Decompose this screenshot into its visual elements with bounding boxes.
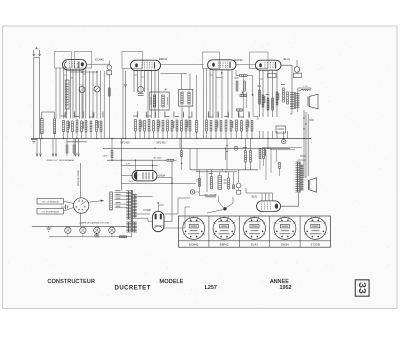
- svg-text:CPL. CYLINDRIQUE: CPL. CYLINDRIQUE: [42, 202, 60, 204]
- socket S4 EM34: [274, 217, 296, 239]
- output transformer T1 primary: [291, 93, 293, 109]
- scan speckle: [130, 69, 133, 72]
- svg-text:DUCRETET: DUCRETET: [115, 286, 151, 292]
- switch shaft wire: [80, 163, 82, 198]
- wire screen line: [122, 165, 159, 167]
- wires cluster2b to bus: [176, 131, 178, 138]
- capacitor C3: [90, 121, 92, 132]
- resistor R38: [189, 121, 191, 132]
- wire HT to rectifier: [135, 196, 153, 198]
- speaker HP1: [307, 97, 309, 107]
- capacitor C6: [162, 121, 164, 132]
- wires cluster4 to bus: [259, 131, 261, 139]
- volume potentiometer P1: [190, 190, 194, 194]
- resistor R1: [63, 121, 65, 132]
- oscillator coil box: [65, 80, 69, 109]
- resistor R19: [230, 121, 232, 132]
- cluster value labels row1: [64, 112, 66, 118]
- wire V1 to pilot: [87, 63, 110, 65]
- wire B3 drop: [122, 69, 124, 139]
- rotary switch SW1: [74, 198, 89, 213]
- wire boxes to switch: [64, 201, 74, 203]
- padder coil winding: [54, 119, 56, 134]
- wire pickup: [238, 170, 240, 183]
- resistor R29: [111, 151, 113, 158]
- AVC filter resistor: [108, 88, 110, 96]
- wire pilot down: [108, 75, 110, 139]
- wire vol drop: [198, 170, 200, 196]
- resistor R20: [236, 120, 238, 131]
- resistor R28: [287, 92, 289, 104]
- ground bottom: [32, 225, 33, 227]
- wire rectifier right links: [164, 198, 190, 214]
- coil shield box L4: [203, 52, 220, 69]
- junction dots 227: [226, 145, 227, 146]
- power transformer secondary: [134, 195, 136, 219]
- svg-text:C.A.V.: C.A.V.: [102, 155, 108, 158]
- wire trimmer stubs: [66, 139, 68, 146]
- trimmer symbol: [65, 205, 67, 210]
- wire EM34 riser: [121, 139, 123, 191]
- phone jack: [294, 67, 300, 73]
- power transformer filament winding: [134, 222, 136, 232]
- decoupling box: [276, 126, 286, 133]
- svg-text:ECH42: ECH42: [189, 243, 199, 247]
- dial lamp LP2: [80, 227, 86, 233]
- pickup circle P2: [236, 183, 241, 188]
- resistor R11: [167, 120, 169, 131]
- wires V6 top leads: [261, 193, 263, 201]
- svg-text:ECH42: ECH42: [95, 58, 104, 62]
- svg-text:VOL.: VOL.: [196, 177, 198, 182]
- capacitor C11: [241, 121, 243, 132]
- wires B1 B2 drops: [55, 68, 57, 119]
- resistor R6: [100, 121, 102, 132]
- trimmer capacitor CT1: [66, 145, 68, 153]
- wire V3 outputs: [235, 70, 237, 76]
- wire grid loop: [262, 147, 302, 149]
- resistor R24: [262, 95, 264, 107]
- output transformer T1 core: [294, 92, 296, 109]
- coupling capacitor C7: [240, 75, 248, 77]
- svg-text:MF1 455: MF1 455: [120, 143, 130, 145]
- wire transformer to lamps: [131, 232, 133, 237]
- wire antenna down-leads: [33, 58, 35, 139]
- socket S2 EBF42: [213, 217, 235, 239]
- pin link ticks: [64, 74, 67, 76]
- socket S1 ECH42: [183, 217, 205, 239]
- socket S5 5Y3GB: [304, 217, 326, 239]
- HT dropper resistor R30: [167, 159, 174, 161]
- wire mid horizontal: [103, 147, 290, 149]
- wires cluster3 to bus: [206, 131, 208, 139]
- capacitor C2: [81, 121, 83, 132]
- tuning capacitor CV1: [79, 87, 85, 93]
- coil shield box L1: [54, 52, 71, 69]
- power transformer primary: [128, 191, 130, 219]
- wires V2 pin leads: [133, 69, 135, 92]
- wires V1 pin leads: [63, 69, 65, 119]
- dial lamp LP4: [109, 227, 115, 233]
- wire switch down: [80, 213, 82, 227]
- wire grid link: [70, 71, 97, 73]
- cluster value labels row2: [64, 113, 66, 118]
- resistor R41: [250, 151, 252, 163]
- resistor R40: [245, 151, 247, 163]
- chassis bus: [31, 138, 311, 140]
- wire IFT2 feed: [161, 73, 188, 75]
- publisher logo 33: [355, 280, 369, 296]
- tuning capacitor CV2: [94, 86, 100, 92]
- capacitor C1: [72, 121, 74, 132]
- resistor R34: [233, 185, 235, 189]
- wire C15 down: [279, 168, 281, 176]
- tube V2 EBF42: [130, 60, 160, 70]
- dial lamp LP3: [94, 227, 100, 233]
- ground left end of bus: [31, 139, 37, 141]
- output transformer T2 core: [299, 162, 301, 193]
- svg-text:PRISE DE TERRE: PRISE DE TERRE: [78, 170, 80, 186]
- grid stopper box: [268, 74, 277, 78]
- svg-text:1952: 1952: [280, 285, 292, 291]
- resistor R35: [120, 236, 127, 238]
- wires V4 pin leads: [259, 70, 261, 117]
- wires R40 R41: [245, 139, 247, 151]
- coil shield box L3: [122, 52, 143, 69]
- tube V1 ECH42: [62, 60, 86, 70]
- svg-text:MODELE: MODELE: [160, 279, 184, 285]
- svg-text:EM34: EM34: [281, 243, 289, 247]
- tone capacitor stack: [218, 176, 222, 190]
- capacitor C10: [225, 120, 227, 131]
- wire HT rail right: [290, 109, 292, 115]
- svg-text:EAF42: EAF42: [234, 58, 243, 62]
- cathode resistor R25: [267, 98, 269, 110]
- antenna coil winding: [41, 119, 44, 134]
- speaker HP2: [308, 180, 310, 190]
- wire rectifier output: [164, 160, 172, 221]
- tube V3 EAF42: [208, 60, 236, 70]
- wire R42: [181, 139, 183, 151]
- resistor R37: [185, 120, 187, 131]
- output transformer T2 windings: [297, 162, 299, 192]
- capacitor C13: [94, 234, 99, 236]
- svg-text:L.10: L.10: [304, 86, 308, 88]
- svg-text:EBF42: EBF42: [159, 57, 168, 61]
- tube V6 EL41 heaters: [257, 201, 281, 212]
- wires right risers: [303, 110, 305, 178]
- output transformer T1 secondary: [297, 94, 299, 108]
- wire riser 104: [103, 71, 105, 139]
- resistor R22: [251, 121, 253, 132]
- svg-text:CPL. EXCENTRIQUE: CPL. EXCENTRIQUE: [41, 212, 59, 214]
- tube V5 EM34: [132, 171, 157, 181]
- svg-text:500 K: 500 K: [129, 181, 134, 183]
- resistor R16: [206, 120, 208, 131]
- junction dots mid: [121, 160, 122, 161]
- wires to coil taps: [36, 139, 38, 157]
- label box commutateur: [37, 199, 64, 205]
- wires cluster1 to bus: [41, 132, 43, 139]
- wire V2 to V3 stage: [161, 64, 204, 66]
- wires V3 pin leads: [209, 69, 211, 118]
- bottom bus: [33, 225, 128, 227]
- dial lamp LP1: [65, 227, 71, 233]
- resistor R23: [259, 90, 261, 104]
- resistor R4: [85, 121, 87, 133]
- socket S3 EL41: [244, 217, 266, 239]
- wire EM34 left: [122, 175, 132, 177]
- AVC arrow: [125, 71, 127, 139]
- tube V4 EL41: [255, 60, 281, 70]
- resistor R10: [157, 120, 159, 131]
- trimmer capacitor CT2: [73, 145, 75, 153]
- wire mid vertical drops: [179, 139, 181, 149]
- pilot lamp holder: [107, 65, 112, 70]
- IF transformer IFT2: [179, 90, 193, 107]
- junction blob: [223, 207, 226, 210]
- capacitor C8: [237, 109, 243, 111]
- svg-text:VERS PLOT DE BOBINAGE: VERS PLOT DE BOBINAGE: [46, 159, 74, 162]
- resistor R7: [135, 120, 137, 132]
- resistor R31: [199, 178, 201, 186]
- socket panel dividers: [208, 216, 210, 247]
- wires cluster2 to bus: [135, 131, 137, 138]
- junction right riser: [303, 117, 304, 118]
- svg-text:EL41: EL41: [284, 57, 291, 61]
- coil L10: [301, 89, 310, 90]
- svg-text:REG. VOLUME: REG. VOLUME: [204, 195, 217, 197]
- capacitor C4: [144, 121, 146, 132]
- resistor R43: [259, 149, 261, 159]
- resistor R3: [76, 120, 78, 132]
- svg-text:+HT 250V: +HT 250V: [153, 158, 162, 160]
- capacitor C15: [279, 162, 281, 168]
- wire V3 to V4 stage: [236, 63, 255, 65]
- capacitor C5: [153, 121, 155, 132]
- resistor R42: [181, 151, 183, 157]
- capacitor C12: [272, 98, 274, 110]
- resistor R12: [171, 121, 173, 132]
- resistor R5: [96, 121, 98, 132]
- svg-text:EBF42: EBF42: [220, 243, 229, 247]
- resistor R26: [276, 92, 278, 105]
- capacitor C9: [210, 121, 212, 132]
- resistor R33: [228, 178, 230, 189]
- svg-text:L257: L257: [205, 285, 217, 291]
- IF transformer IFT1: [150, 92, 169, 110]
- wire lamp bottoms: [49, 236, 132, 238]
- bus junction dots: [41, 138, 42, 139]
- voltage tap wires: [115, 191, 128, 193]
- resistor R17: [215, 120, 217, 131]
- svg-text:33: 33: [356, 282, 368, 294]
- IFT1 side capacitors: [150, 97, 152, 105]
- antenna: [33, 50, 35, 56]
- resistor R36: [176, 120, 178, 131]
- riser label: [300, 155, 306, 157]
- wires V1 extra leads: [89, 71, 91, 119]
- fuse holder on bus: [282, 139, 286, 143]
- wire V6 to speaker: [281, 193, 299, 207]
- coil shield box L5: [250, 52, 269, 69]
- socket panel frame: [179, 216, 331, 247]
- dial lamp bar: [110, 192, 113, 210]
- svg-text:CONSTRUCTEUR: CONSTRUCTEUR: [47, 279, 95, 285]
- resistor R14: [244, 81, 246, 91]
- wire V4 to T1: [281, 65, 292, 92]
- wire AF horizontal: [189, 148, 191, 170]
- svg-text:MF2 455: MF2 455: [156, 143, 166, 145]
- resistor R32: [211, 177, 213, 189]
- resistor R8: [139, 120, 141, 131]
- resistor R9: [148, 120, 150, 132]
- svg-text:5Y3GB: 5Y3GB: [311, 243, 320, 247]
- capacitor C14: [181, 121, 183, 132]
- wire under EM34: [122, 183, 197, 185]
- dial lamp on line: [234, 146, 238, 150]
- wires B4 drops: [203, 69, 205, 139]
- tube V7 5Y3GB: [152, 211, 164, 231]
- svg-text:EL41: EL41: [252, 195, 258, 198]
- resistor R21: [246, 120, 248, 131]
- wire coil top stubs: [41, 112, 43, 119]
- label box excentrique: [37, 209, 64, 215]
- coil shield box L2: [74, 52, 92, 69]
- resistor R44: [263, 149, 265, 159]
- bus stub below: [67, 141, 87, 143]
- resistor R18: [220, 121, 222, 132]
- wire HT line: [107, 159, 167, 161]
- wire T2 top: [298, 159, 307, 161]
- detector diode load R15: [240, 94, 246, 96]
- power transformer core: [130, 190, 132, 232]
- arrow to lamp bar: [88, 201, 101, 203]
- svg-text:EL41: EL41: [251, 243, 258, 247]
- wire EM34 right: [157, 178, 172, 184]
- wire CAV line: [111, 139, 113, 151]
- resistor R27: [283, 88, 285, 102]
- resistor R2: [67, 121, 69, 132]
- resistor R13: [236, 81, 238, 91]
- svg-text:5Y3GB: 5Y3GB: [143, 210, 151, 212]
- screen bypass circle: [138, 87, 144, 93]
- svg-text:LAMPE DE CADRAN 6,3V 0,3A: LAMPE DE CADRAN 6,3V 0,3A: [79, 222, 109, 225]
- resistor R39: [196, 120, 198, 132]
